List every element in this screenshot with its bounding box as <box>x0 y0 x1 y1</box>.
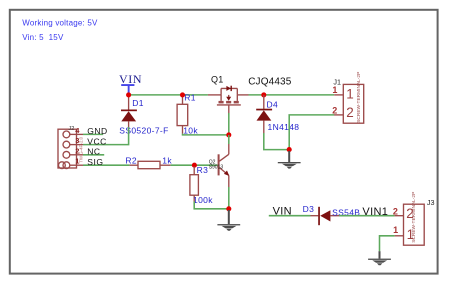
junction gate node <box>226 132 231 137</box>
svg-text:S9013: S9013 <box>209 165 224 171</box>
svg-text:SIG: SIG <box>87 157 103 167</box>
mosfet Q1 <box>208 86 249 115</box>
svg-text:TWIG-4P-2.0: TWIG-4P-2.0 <box>79 136 84 162</box>
svg-text:1: 1 <box>393 225 398 235</box>
svg-text:VIN: VIN <box>119 72 142 86</box>
wire Q2 collector up <box>228 135 230 144</box>
svg-text:GND: GND <box>87 126 107 136</box>
svg-text:Working voltage: 5V: Working voltage: 5V <box>22 19 98 28</box>
wire R2 to R3 junction to Q2 base <box>171 164 218 166</box>
wire D3 to J3 pin 2 <box>339 215 395 217</box>
wire main rail left (VIN to Q1 source) <box>129 94 208 96</box>
wire R1 bottom to gate junction <box>183 134 229 135</box>
svg-text:VCC: VCC <box>87 136 106 146</box>
connector J1 <box>334 84 363 123</box>
svg-text:Vin: 5 15V: Vin: 5 15V <box>22 33 64 42</box>
svg-text:CJQ4435: CJQ4435 <box>248 77 292 88</box>
junction R3 top <box>192 163 197 168</box>
svg-text:SCREW-TERMINAL-2P: SCREW-TERMINAL-2P <box>411 192 417 243</box>
resistor R3 <box>190 167 199 202</box>
diode D1 <box>121 95 137 127</box>
junction D4 top <box>261 92 266 97</box>
wire Q2 emitter down <box>228 187 230 209</box>
svg-text:1k: 1k <box>162 156 172 166</box>
svg-text:D1: D1 <box>132 98 144 108</box>
junction emitter node <box>226 206 231 211</box>
diode D3 <box>311 207 340 225</box>
svg-text:2: 2 <box>332 105 337 115</box>
power flag VIN <box>119 72 142 94</box>
svg-text:2: 2 <box>346 105 354 120</box>
svg-text:J2: J2 <box>68 126 74 132</box>
svg-text:2: 2 <box>393 206 398 216</box>
wire J3 pin 1 to ground <box>380 236 395 251</box>
wire NC stub <box>83 154 104 156</box>
resistor R1 <box>177 95 188 134</box>
wire SIG row to R2 <box>83 164 130 166</box>
connector J3 <box>395 204 425 245</box>
svg-text:10k: 10k <box>183 125 198 135</box>
svg-text:NC: NC <box>87 147 100 157</box>
svg-text:Q1: Q1 <box>211 75 224 85</box>
connector J2 <box>58 129 83 168</box>
wire Q1 gate down <box>228 113 230 135</box>
ground symbol below Q2 <box>217 210 240 231</box>
svg-text:VIN1: VIN1 <box>362 206 388 218</box>
svg-text:100k: 100k <box>193 195 213 205</box>
wire VIN to D3 <box>269 215 311 217</box>
svg-text:R1: R1 <box>184 92 196 102</box>
transistor Q2 <box>219 144 230 187</box>
svg-text:1: 1 <box>346 86 354 101</box>
junction R1 top <box>180 92 185 97</box>
svg-text:D4: D4 <box>267 100 279 110</box>
svg-text:R2: R2 <box>125 156 137 166</box>
ground symbol middle <box>278 151 301 169</box>
wire main rail right (Q1 drain to J1 pin 1) <box>249 94 335 96</box>
svg-text:J3: J3 <box>427 198 435 207</box>
junction VIN node <box>126 92 131 97</box>
wire R3 bottom to emitter junction <box>194 202 229 209</box>
svg-text:SCREW-TERMINAL-2P: SCREW-TERMINAL-2P <box>356 72 362 123</box>
wire D1 anode to VCC pin <box>83 127 129 145</box>
wire D4 anode to ground junction <box>264 133 289 150</box>
resistor R2 <box>130 161 171 168</box>
diode D4 <box>256 95 272 133</box>
ground symbol bottom right <box>368 251 391 265</box>
svg-text:1: 1 <box>332 85 337 95</box>
junction ground node <box>287 147 292 152</box>
svg-text:R3: R3 <box>197 165 209 175</box>
svg-text:D3: D3 <box>303 204 315 214</box>
wire GND stub <box>83 133 103 135</box>
wire J1 pin 2 to ground junction <box>289 115 334 150</box>
svg-text:SS0520-7-F: SS0520-7-F <box>119 126 168 136</box>
svg-text:1N4148: 1N4148 <box>268 122 300 132</box>
